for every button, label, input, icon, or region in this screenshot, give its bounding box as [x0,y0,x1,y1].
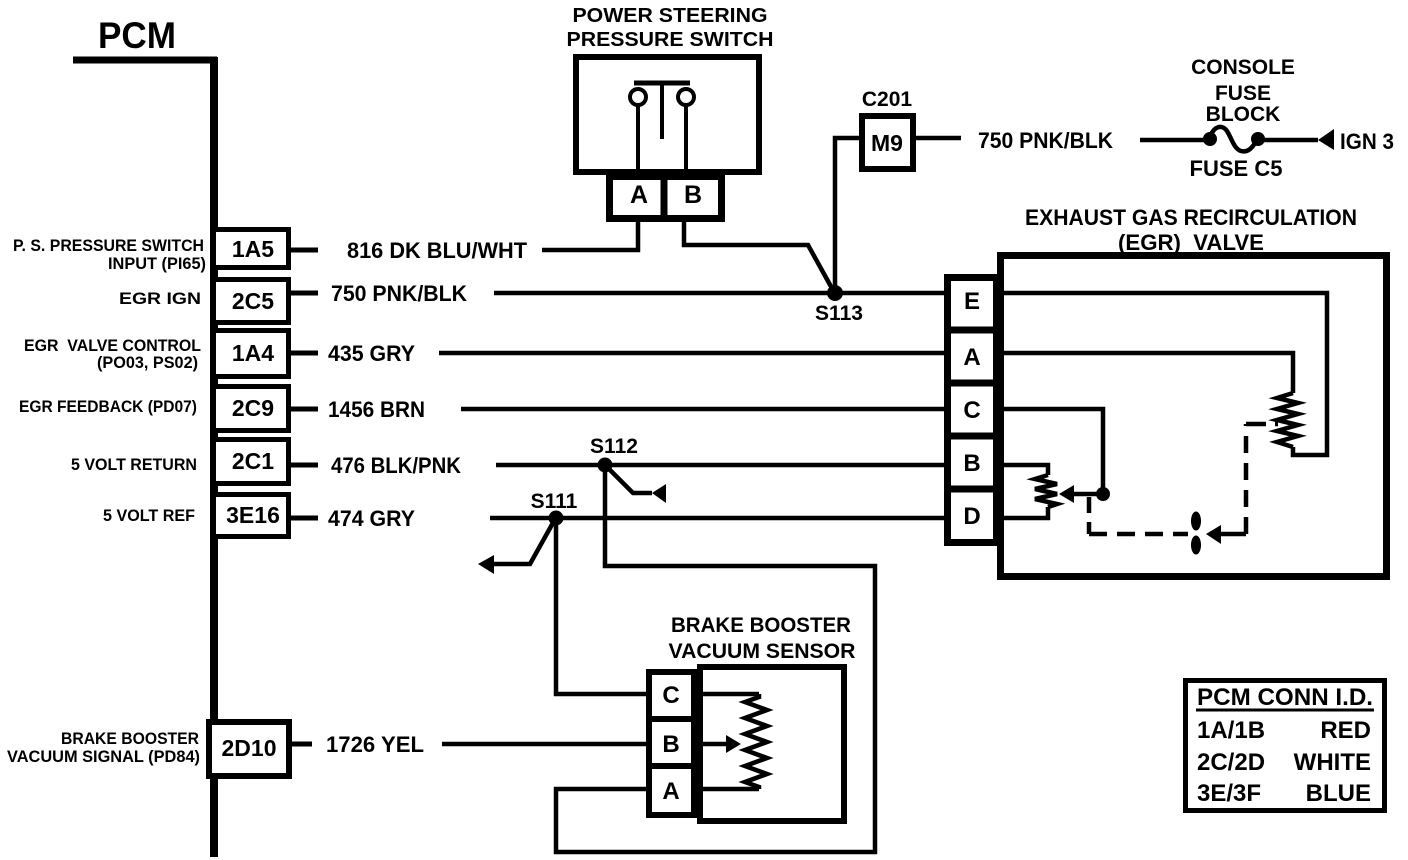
EGR pintle valve symbol [1191,512,1201,531]
EGR internal wire D to potentiometer bottom [1000,507,1048,518]
switch terminal lead right [684,105,688,172]
svg-text:2C/2D: 2C/2D [1197,749,1265,776]
svg-text:474 GRY: 474 GRY [328,506,415,531]
wire stub 1A5 [291,248,318,253]
sensor box [700,667,844,821]
svg-text:1726 YEL: 1726 YEL [326,732,424,757]
svg-text:750 PNK/BLK: 750 PNK/BLK [978,128,1113,153]
svg-text:C: C [662,682,679,709]
connector box 2D10 [209,722,289,776]
linkage dashed from coil [1244,424,1249,534]
svg-text:5 VOLT RETURN: 5 VOLT RETURN [71,455,197,474]
svg-text:EGR IGN: EGR IGN [119,289,201,308]
EGR pin separator 3 [944,433,1000,440]
svg-text:RED: RED [1320,717,1371,744]
svg-text:FUSE: FUSE [1215,82,1271,105]
wire stub 2C5 [291,291,318,296]
EGR pin block [948,278,997,543]
connector box 2C9 [214,387,289,431]
svg-text:B: B [684,181,702,209]
switch terminal circle right [678,89,694,105]
connector box 1A5 [214,230,289,268]
wire S112 down and around to sensor pin A [556,465,875,852]
switch terminal circle left [630,89,646,105]
svg-text:PRESSURE SWITCH: PRESSURE SWITCH [567,29,774,51]
sensor pin separator 2 [646,763,697,769]
svg-text:P. S. PRESSURE SWITCH: P. S. PRESSURE SWITCH [13,236,204,255]
EGR pin separator 4 [944,486,1000,493]
wiper junction dot [1096,487,1110,501]
svg-text:FUSE C5: FUSE C5 [1190,156,1283,181]
svg-text:WHITE: WHITE [1294,749,1371,776]
wire 474 GRY to EGR pin D [490,516,944,521]
svg-text:A: A [963,344,980,371]
svg-text:1A5: 1A5 [232,236,274,262]
wire switch pin B to S113 [684,221,834,292]
svg-text:M9: M9 [871,130,903,156]
svg-text:816 DK BLU/WHT: 816 DK BLU/WHT [347,238,528,263]
svg-text:B: B [662,731,679,758]
switch pin divider [661,176,668,219]
svg-text:BRAKE BOOSTER: BRAKE BOOSTER [61,729,199,748]
sensor resistor [745,694,767,789]
wire stub 1A4 [291,351,318,356]
wire 816 to switch pin A [542,221,638,250]
svg-text:E: E [964,288,980,315]
switch terminal lead left [636,105,640,172]
svg-text:1A4: 1A4 [232,340,274,366]
svg-text:D: D [963,503,980,530]
wiper arrow [1059,485,1074,503]
S111 off-page branch [494,521,554,564]
EGR solenoid coil [1277,393,1298,447]
EGR pin separator 1 [944,327,1000,334]
EGR internal wire A to coil top [1000,353,1293,393]
switch contact bar [634,81,690,86]
svg-text:INPUT (PI65): INPUT (PI65) [108,254,206,273]
svg-text:C: C [963,397,980,424]
wire stub 3E16 [291,516,318,521]
IGN 3 off-page arrow [1318,129,1334,150]
svg-text:(PO03, PS02): (PO03, PS02) [97,353,198,372]
sensor pin block [649,672,694,815]
svg-text:2C9: 2C9 [232,395,274,421]
svg-text:BLOCK: BLOCK [1206,103,1281,126]
svg-text:S112: S112 [590,435,638,458]
wire 1726 YEL to sensor pin B [442,742,646,747]
linkage dashed from wiper [1087,497,1092,534]
sensor internal wire A to resistor bottom [697,787,759,792]
wire stub 2D10 [292,742,312,747]
svg-text:476 BLK/PNK: 476 BLK/PNK [331,453,461,478]
splice S113 [827,285,843,301]
svg-text:CONSOLE: CONSOLE [1191,56,1295,79]
sensor pin separator 1 [646,716,697,722]
wire S111 down to sensor pin C [556,518,646,694]
svg-text:B: B [963,450,980,477]
sensor wiper wire B with arrow [697,742,726,747]
connector box 2C5 [214,280,289,323]
svg-text:435 GRY: 435 GRY [328,341,415,366]
PCM main vertical line [210,57,218,857]
switch pin block [610,177,722,219]
connector M9 box [862,116,913,169]
power steering switch box [576,57,759,172]
wire 476 BLK/PNK to EGR pin B [496,463,944,468]
EGR internal wire C to wiper junction [1000,409,1103,490]
svg-text:BRAKE BOOSTER: BRAKE BOOSTER [671,614,851,637]
svg-text:IGN 3: IGN 3 [1340,129,1394,154]
svg-text:C201: C201 [862,88,913,111]
EGR pin separator 2 [944,380,1000,387]
wire fuse to IGN 3 arrow [1264,138,1318,143]
wire 750 PNK/BLK to EGR pin E [494,291,944,296]
wire stub 2C1 [291,463,318,468]
EGR internal wire B to potentiometer top [1000,465,1048,475]
svg-text:3E/3F: 3E/3F [1197,780,1261,807]
svg-text:BLUE: BLUE [1306,780,1371,807]
svg-text:3E16: 3E16 [226,502,280,528]
svg-text:PCM CONN I.D.: PCM CONN I.D. [1197,684,1373,711]
svg-text:VACUUM SIGNAL (PD84): VACUUM SIGNAL (PD84) [7,747,200,766]
svg-text:S113: S113 [815,302,863,325]
svg-text:1456 BRN: 1456 BRN [328,397,425,422]
wire to fuse [1140,138,1208,143]
PCM CONN I.D. table box [1186,681,1385,811]
S112 off-page branch [607,467,652,493]
wire 435 GRY to EGR pin A [439,351,944,356]
EGR internal wire E to coil bottom [1000,293,1327,455]
svg-text:2C5: 2C5 [232,288,274,314]
svg-text:2C1: 2C1 [232,448,274,474]
connector box 2C1 [214,440,289,484]
svg-text:VACUUM SENSOR: VACUUM SENSOR [669,640,856,663]
svg-text:POWER STEERING: POWER STEERING [573,5,768,27]
sensor internal wire C to resistor top [697,692,759,697]
connector box 3E16 [214,495,289,537]
svg-text:A: A [662,778,679,805]
wire stub 2C9 [291,407,318,412]
wire 1456 BRN to EGR pin C [461,407,944,412]
svg-text:(EGR) VALVE: (EGR) VALVE [1118,230,1264,255]
splice S111 [549,511,564,526]
connector box 1A4 [214,331,289,377]
linkage arrow to valve [1206,525,1221,544]
svg-text:5 VOLT REF: 5 VOLT REF [103,506,195,525]
wire M9 left to S113 vertical [835,138,859,290]
PCM top bar [73,57,217,64]
switch actuator stem [660,85,664,139]
fuse C5 symbol [1203,132,1217,146]
svg-text:EXHAUST GAS RECIRCULATION: EXHAUST GAS RECIRCULATION [1025,205,1357,230]
EGR valve box [1001,256,1387,577]
svg-text:750 PNK/BLK: 750 PNK/BLK [331,281,467,306]
wire M9 right stub [916,136,961,141]
svg-text:PCM: PCM [98,15,176,56]
splice S112 [598,458,613,473]
svg-text:1A/1B: 1A/1B [1197,717,1265,744]
EGR potentiometer resistor [1035,475,1057,507]
svg-text:2D10: 2D10 [222,735,277,761]
svg-text:EGR FEEDBACK (PD07): EGR FEEDBACK (PD07) [19,397,197,416]
svg-text:A: A [630,181,648,209]
svg-text:S111: S111 [531,490,578,513]
